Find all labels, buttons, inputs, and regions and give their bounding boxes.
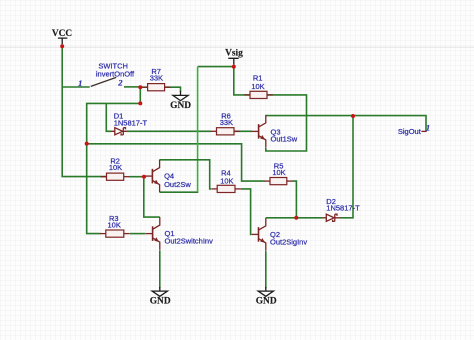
svg-text:GND: GND [170,101,191,111]
svg-text:1: 1 [426,122,430,132]
svg-text:1: 1 [78,78,82,88]
svg-text:1N5817-T: 1N5817-T [114,119,148,128]
svg-text:GND: GND [150,296,171,306]
svg-text:10K: 10K [108,220,121,229]
svg-text:Out2SigInv: Out2SigInv [270,237,307,246]
svg-text:Vsig: Vsig [225,48,243,58]
svg-text:2: 2 [117,78,123,88]
svg-text:10K: 10K [220,176,233,185]
svg-text:1N5817-T: 1N5817-T [326,203,360,212]
svg-text:10K: 10K [109,163,122,172]
svg-text:33K: 33K [220,118,233,127]
svg-text:SigOut: SigOut [398,127,422,136]
svg-text:Out1Sw: Out1Sw [271,134,298,143]
svg-text:10K: 10K [272,168,285,177]
svg-text:Out2SwitchInv: Out2SwitchInv [165,237,214,246]
svg-text:invertOnOff: invertOnOff [96,70,135,79]
svg-text:33K: 33K [150,74,163,83]
svg-text:10K: 10K [251,82,264,91]
svg-text:Out2Sw: Out2Sw [164,180,191,189]
svg-text:GND: GND [256,296,277,306]
